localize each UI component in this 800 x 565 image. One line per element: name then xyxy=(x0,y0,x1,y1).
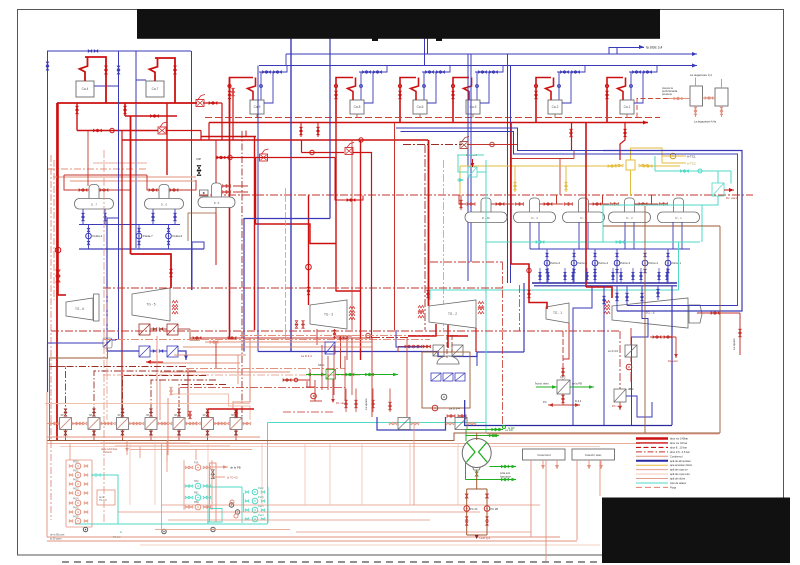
wire blue deaerator drops right xyxy=(529,222,531,249)
wire Ca.1 blue manifold xyxy=(629,66,657,73)
wire blue manifold A xyxy=(79,224,180,226)
wire blue approach P2 xyxy=(401,132,604,155)
wire cyan x702 xyxy=(701,205,703,242)
wire dashdot y387 xyxy=(180,387,345,389)
wire salmon drop x130 xyxy=(129,444,131,506)
boiler Ca.5 xyxy=(466,100,480,114)
pump TG-2 a xyxy=(441,394,447,400)
pump on x58 xyxy=(55,247,61,253)
svg-text:D-3,4: D-3,4 xyxy=(575,399,582,403)
wire red x317 drop xyxy=(316,329,318,345)
valves PaL2 xyxy=(245,491,249,494)
legend line abur 0,5...2,5 bar xyxy=(636,451,668,453)
blue box above xyxy=(325,342,335,354)
turbine TG-6 xyxy=(66,298,93,320)
wire cyan y290 span xyxy=(430,289,679,291)
green valve mid xyxy=(475,472,478,476)
wire blue elbow to Ca.7 xyxy=(136,79,146,81)
wire red x335 drop xyxy=(335,158,363,201)
hx box dB-2 xyxy=(614,389,626,402)
wire blue x118 long xyxy=(118,86,120,340)
wire cyan long y242 xyxy=(486,241,700,243)
wire red drop x77 xyxy=(76,103,78,131)
valves TG-1 inlet xyxy=(528,290,531,294)
deaerator D - 4b xyxy=(481,198,491,216)
svg-text:P6J3: P6J3 xyxy=(73,488,79,491)
flange Ca.8 blue xyxy=(360,85,363,88)
svg-text:Ca.8: Ca.8 xyxy=(354,105,361,109)
wire red y313 right xyxy=(697,312,740,314)
valves pump left xyxy=(69,474,73,477)
circle valve y152 xyxy=(310,150,314,154)
wire red x88 drop xyxy=(87,131,89,187)
valve pair y103 xyxy=(209,102,213,105)
wire blue x524 L xyxy=(523,283,525,352)
valves Ca.6 manifold xyxy=(426,71,430,74)
wire green TA-2 left xyxy=(536,386,557,388)
flange Ca.9 blue xyxy=(260,85,263,88)
flange Ca.1 riser xyxy=(605,84,608,87)
wire red main vertical x57 xyxy=(56,103,58,441)
wire blue into p8 xyxy=(48,343,104,392)
wire blue leg x627 xyxy=(626,286,628,306)
wire bottom line y536 xyxy=(47,536,560,538)
valves PB1 xyxy=(185,496,189,499)
valves D mid xyxy=(496,203,500,206)
valves yellow box xyxy=(615,164,619,167)
svg-text:PaL4: PaL4 xyxy=(258,514,264,517)
salmon dashdot pair x51 xyxy=(50,155,52,520)
wire red TG-3 feed left xyxy=(308,196,310,306)
valves heater right xyxy=(215,422,219,425)
svg-text:P6J6: P6J6 xyxy=(73,516,79,519)
wire red drop x301 y152 xyxy=(301,140,303,153)
wire red TG-1 inlet xyxy=(511,123,547,310)
prv y157 xyxy=(260,154,268,161)
wire dashdot y145 right xyxy=(403,144,462,146)
valve Ca.7 riser xyxy=(174,66,177,70)
pump P-7 xyxy=(75,518,81,524)
boiler Ca.2 xyxy=(548,100,562,114)
wire red y144 solid xyxy=(467,144,517,146)
wire blue pair x427 xyxy=(427,38,429,54)
wire yellow to ATC1 xyxy=(662,148,686,156)
legend line apă de alimentare xyxy=(636,460,668,462)
wire red feed y175 xyxy=(64,174,147,176)
svg-text:de la PB: de la PB xyxy=(572,382,582,386)
wire dashdot y262 xyxy=(430,261,503,263)
red header arrow xyxy=(643,121,648,125)
deaerator D - 2 xyxy=(625,198,635,216)
wire Ca.6 steam run xyxy=(400,78,416,123)
flow meter d xyxy=(83,527,87,531)
wire blue manifold B xyxy=(79,248,204,250)
valves x233 xyxy=(232,88,235,92)
wire salmon x167 long xyxy=(166,441,168,473)
heater diag salmon xyxy=(117,418,129,430)
wire red dash TG1 drop xyxy=(562,331,564,380)
wire red TG-2 exh c xyxy=(448,335,468,337)
wire salmon x127 drop xyxy=(126,440,128,452)
wire salmon drop x458 xyxy=(457,444,459,506)
heater diag salmon xyxy=(202,418,214,430)
wire red dash x447 xyxy=(446,335,448,358)
wire red dB-2 drop xyxy=(619,402,621,410)
valves D-6 drops xyxy=(152,213,155,217)
wire Ca.4 steam top run xyxy=(85,57,106,103)
wire red main vertical x254 xyxy=(254,137,256,331)
svg-text:Colectri telei: Colectri telei xyxy=(585,453,602,457)
wire salmon drop x410 xyxy=(409,444,411,506)
svg-text:Pelino-2: Pelino-2 xyxy=(649,261,659,265)
wire salmon to vessels xyxy=(668,98,690,100)
turbine TG-2 xyxy=(429,300,476,328)
valves PaL4 xyxy=(245,518,249,521)
flange Ca.1 blue xyxy=(630,85,633,88)
pump Pelda-6 xyxy=(166,233,172,239)
wire red x222 xyxy=(221,103,223,140)
wire blue y54-y65 link xyxy=(285,54,287,66)
wire la TO-45 xyxy=(212,476,225,478)
svg-text:Ca.7: Ca.7 xyxy=(152,87,159,91)
valves pump left xyxy=(69,502,73,505)
cyan hx box Hn.2 xyxy=(468,167,477,177)
wire red into Hn.2 xyxy=(472,159,474,167)
wire green hx row C xyxy=(490,466,517,468)
hx drain tab xyxy=(473,467,481,470)
wire dashdot mid y195 xyxy=(200,194,753,196)
wire blue manifold B right xyxy=(192,242,204,249)
valves y200 xyxy=(347,199,351,202)
red box station xyxy=(340,336,342,368)
wire salmon x168 drop xyxy=(167,398,169,455)
flange Ca.6 blue xyxy=(423,85,426,88)
boiler Ca.4 steam zigzag xyxy=(80,57,88,81)
wire Ca.2 steam run xyxy=(536,78,551,123)
heater diag salmon xyxy=(230,418,242,430)
svg-text:Apa de adaos: Apa de adaos xyxy=(670,481,687,485)
wire blue pair x471 xyxy=(470,54,472,262)
wire green hx top row A xyxy=(466,430,503,442)
wire brown from p8 xyxy=(50,348,108,441)
valves Ca.9 manifold xyxy=(263,71,267,74)
wire red x335 long xyxy=(335,123,337,292)
green valves row D xyxy=(501,478,505,481)
turbine TG-1 xyxy=(546,303,569,323)
salmon dashdot pair x54 xyxy=(53,160,55,300)
arrow colector drop xyxy=(542,460,544,469)
svg-text:La D Q-4: La D Q-4 xyxy=(480,536,491,540)
wire colector drop long4 xyxy=(599,460,601,496)
boiler Ca.8 xyxy=(350,100,364,114)
wire blue drop x136 xyxy=(135,51,137,248)
wire red x740 drop xyxy=(739,313,741,355)
wire red elbow y291 xyxy=(336,290,361,292)
deaerator D-7 xyxy=(89,185,99,203)
wire red header left y103 xyxy=(57,102,197,104)
pump P-1 xyxy=(75,463,81,469)
svg-text:P6J4: P6J4 xyxy=(73,498,79,501)
steam coils TG-5 xyxy=(172,301,178,308)
boiler Ca.1 steam zigzag xyxy=(618,78,626,101)
valves heater left xyxy=(221,422,225,425)
wire dashdot y331 right xyxy=(51,330,620,332)
boiler Ca.8 steam zigzag xyxy=(348,78,356,101)
deaerator D - 4 xyxy=(530,198,540,216)
wire Ca.5 steam run xyxy=(453,78,469,123)
svg-text:apă de ropa tur: apă de ropa tur xyxy=(670,468,688,472)
wire red after prv xyxy=(203,102,222,104)
wire red mid header y152 xyxy=(302,152,345,154)
valve pairs la spoare xyxy=(345,400,348,404)
hx small blue row xyxy=(431,373,441,381)
wire blue branch la SGE xyxy=(609,48,644,55)
wire cyan big loop right xyxy=(678,242,680,290)
svg-text:Condensul: Condensul xyxy=(670,454,683,458)
wire red to D-7 xyxy=(64,175,89,190)
valves D-5 right b xyxy=(223,191,227,194)
wire blue long vertical x258 xyxy=(257,66,259,352)
steam coils TG-3 xyxy=(349,307,355,314)
boiler Ca.6 steam zigzag xyxy=(411,78,419,101)
wire blue pair x507 xyxy=(507,54,509,283)
valves Ca.1 manifold xyxy=(633,71,637,74)
heater box An xyxy=(97,490,115,505)
vessel expander 1 xyxy=(690,86,703,106)
svg-text:PC 2A: PC 2A xyxy=(470,507,478,511)
wire dashed elbow right xyxy=(637,99,668,118)
legend line Apa de adaos xyxy=(636,482,668,484)
wire red heater supply xyxy=(208,408,254,410)
pump PaL5 xyxy=(252,498,258,504)
wire blue pit U xyxy=(377,417,446,430)
wire black bottom dash xyxy=(62,561,598,563)
wire salmon y532 xyxy=(296,531,531,533)
wire red y157 station xyxy=(216,157,335,159)
redaction tick 1 xyxy=(436,38,442,41)
boiler Ca.4 xyxy=(76,81,94,97)
svg-text:UNP: UNP xyxy=(196,158,201,161)
svg-text:P6J1: P6J1 xyxy=(73,470,79,473)
svg-text:Acla tern: Acla tern xyxy=(500,471,511,475)
wire brown x645 long xyxy=(644,206,646,433)
valves D-7 drops xyxy=(82,213,85,217)
valve x58 xyxy=(56,270,60,276)
wire salmon y181 xyxy=(70,180,196,182)
wire blue step x642 xyxy=(632,286,649,426)
wire pump col feeds xyxy=(66,459,92,461)
circle valve y335 xyxy=(366,333,370,337)
valve Ca.4 riser xyxy=(105,66,108,70)
pump P-4 xyxy=(75,490,81,496)
steam coils TG-2 xyxy=(418,306,424,313)
wire vessel tops xyxy=(695,78,697,87)
wire extraction x238 xyxy=(237,355,239,384)
wire red TG-2 exh a xyxy=(408,324,436,336)
blue comb valves xyxy=(539,272,541,275)
wire pump drop xyxy=(573,249,575,283)
valves pump xyxy=(667,253,670,257)
svg-text:D...6: D...6 xyxy=(161,203,168,207)
svg-text:PaL5: PaL5 xyxy=(258,496,264,499)
valves pump xyxy=(594,253,597,257)
hx box TA-2 xyxy=(557,380,570,394)
wire colector drop long2 xyxy=(576,460,578,540)
wire green hx left drop xyxy=(465,462,467,480)
valves heater left xyxy=(79,422,83,425)
deaerator D - 1 xyxy=(674,198,684,216)
pump P-3 xyxy=(75,481,81,487)
wire blue pair x468 xyxy=(467,54,469,281)
valves TG-2 inlet xyxy=(427,290,430,294)
wire blue leg x617 xyxy=(616,286,618,312)
wire extraction x250 xyxy=(233,338,250,409)
valve between vessels xyxy=(705,97,709,100)
wire red vertical x167 xyxy=(166,103,168,175)
prv y130 xyxy=(158,127,166,134)
boiler Ca.7 steam zigzag xyxy=(150,58,158,81)
svg-text:Ca.1: Ca.1 xyxy=(624,105,631,109)
wire dashdot y368 xyxy=(186,368,345,370)
wire red thick x428 to TG-2 xyxy=(428,140,430,306)
valves heater right xyxy=(186,422,190,425)
brown pit rect xyxy=(422,352,470,408)
valves Pelda-4 xyxy=(87,228,90,232)
wire red drain manifold xyxy=(398,346,430,348)
wire red elbow x201 xyxy=(200,131,202,141)
wire blue long y351 xyxy=(258,352,524,357)
wire red y130 cont xyxy=(166,130,201,132)
wire dashdot y337 link xyxy=(372,337,408,339)
valves Ca.6 riser xyxy=(399,91,402,95)
pump TG-4 xyxy=(626,364,632,370)
wire extraction y347 xyxy=(183,346,372,348)
wire salmon x372 drop xyxy=(371,338,373,417)
yellow box xyxy=(626,160,635,170)
wire red y158 right xyxy=(511,158,575,160)
wire blue leg x658 xyxy=(657,286,659,301)
wire extraction y363 xyxy=(150,362,240,364)
svg-text:Pelino-1: Pelino-1 xyxy=(672,261,682,265)
wire salmon between vessels xyxy=(703,97,716,99)
wire D-6 drops xyxy=(152,209,154,225)
wire green right xyxy=(335,374,398,376)
wire red mid drops xyxy=(306,381,308,387)
valve pairs extraction xyxy=(193,337,197,340)
wire extraction y355 xyxy=(174,354,246,356)
pump TG-2 b xyxy=(432,405,438,411)
valve pair vessel xyxy=(674,97,678,100)
circle j1 xyxy=(230,500,234,504)
svg-text:TG - 1: TG - 1 xyxy=(553,311,562,315)
wire Ca.9 blue feed a xyxy=(260,72,262,100)
wire cyan y155 xyxy=(457,154,484,156)
wire Ca.1 steam run xyxy=(607,78,623,123)
wire pump drop Pelda-4 xyxy=(88,225,90,250)
valve on blue drop x118 xyxy=(117,66,120,70)
legend line abur 8...10 bar xyxy=(636,446,668,448)
wire blue main header 2 xyxy=(259,65,697,67)
boiler Ca.9 steam zigzag xyxy=(248,78,256,101)
wire red x334 exhaust xyxy=(334,329,336,340)
wire pump drop xyxy=(667,249,669,283)
wire vessel1 drain xyxy=(695,106,697,117)
wire salmon y443 xyxy=(47,443,640,445)
wire red header y130 xyxy=(77,130,158,132)
svg-text:apă de ropa retur: apă de ropa retur xyxy=(670,472,690,476)
wire salmon x161 long xyxy=(161,444,163,534)
wire blue left loop top xyxy=(48,51,192,392)
heater box B-7 xyxy=(60,418,72,430)
valves TG-5 r2 xyxy=(153,350,157,353)
wire red D-5 right b xyxy=(233,191,248,193)
wire green hx row D xyxy=(466,479,517,481)
prv on left header xyxy=(196,100,204,107)
valves x622 xyxy=(624,129,627,133)
wire blue long vertical x291 xyxy=(290,38,292,352)
wire red D-5 right a xyxy=(233,185,248,187)
svg-text:abur viu 140bar: abur viu 140bar xyxy=(670,437,688,441)
wire cyan y422 long xyxy=(268,422,487,424)
wire red dash x452 xyxy=(451,335,453,352)
wire blue drop to Ca.4 xyxy=(94,51,119,86)
blue comb ticks xyxy=(539,268,541,283)
valves heater B xyxy=(446,422,450,425)
wire blue x604 long xyxy=(603,286,605,426)
legend line apă de ropa tur xyxy=(636,469,668,471)
valves D - 3 left xyxy=(565,203,569,206)
valves D - 2 left xyxy=(611,203,615,206)
wire Ca.1 blue feed a xyxy=(630,72,632,100)
svg-text:PBE: PBE xyxy=(194,501,199,504)
pump Pelino-3 xyxy=(614,260,620,266)
wire extraction x216 xyxy=(215,341,217,368)
svg-text:TG - 3: TG - 3 xyxy=(324,313,333,317)
pump PC 2A xyxy=(464,506,470,512)
wire red main vertical x230 xyxy=(229,137,231,341)
generator TG-6 xyxy=(94,294,100,321)
wire red x352 long xyxy=(351,140,353,330)
wire brown r1 xyxy=(150,328,155,330)
wire heater drops bottom xyxy=(65,430,67,441)
wire Ca.9 blue feed b xyxy=(264,72,273,103)
wire Ca.7 steam top run xyxy=(155,58,175,103)
valves TG-2 drain xyxy=(447,415,451,418)
wire blue long vertical x191 xyxy=(191,51,193,290)
turbine TG-3 xyxy=(310,300,347,329)
wire salmon y434 right xyxy=(487,433,720,435)
green valves row C xyxy=(501,465,505,468)
valve on left blue header xyxy=(88,50,92,53)
svg-text:Pelino-4: Pelino-4 xyxy=(599,261,609,265)
p8 reducing box xyxy=(103,338,112,348)
svg-text:Ca.4: Ca.4 xyxy=(82,87,89,91)
wire brown into hx xyxy=(454,433,477,441)
wire dashdot x425 xyxy=(424,145,426,330)
svg-text:La spoare: La spoare xyxy=(364,398,368,410)
wire dark red dashdot x242 xyxy=(241,131,243,420)
wire dashdot x519 xyxy=(519,285,521,332)
wire red TG-6 inlet xyxy=(58,294,66,296)
svg-text:La spoare: La spoare xyxy=(732,338,736,350)
circle valve y140 xyxy=(359,138,363,142)
valves D-7 tank left xyxy=(79,189,83,192)
valves cyan bl xyxy=(92,474,96,477)
valves pump xyxy=(644,253,647,257)
wire brown y440 long xyxy=(47,433,720,441)
wire red stub x246 xyxy=(245,131,247,137)
green dot la DR xyxy=(503,426,506,429)
